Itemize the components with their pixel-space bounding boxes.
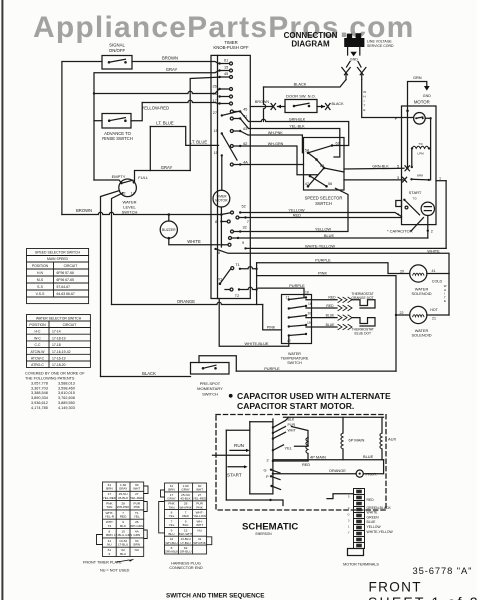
wire blue timer to capacitor 2 bbox=[238, 237, 428, 239]
black drop vertical with hop over door row bbox=[264, 87, 266, 122]
svg-text:MOTOR: MOTOR bbox=[215, 199, 228, 203]
patents notice bbox=[25, 372, 85, 410]
svg-text:POSITION: POSITION bbox=[32, 264, 49, 268]
svg-text:3,889,550: 3,889,550 bbox=[58, 401, 75, 405]
speed selector switch table bbox=[27, 249, 89, 304]
svg-text:61: 61 bbox=[224, 59, 228, 63]
svg-text:GR-BLU: GR-BLU bbox=[180, 550, 192, 554]
svg-text:YEL-R: YEL-R bbox=[105, 515, 115, 519]
wire yellow2 timer 32 to speed selector 56 bbox=[240, 188, 348, 231]
speed selector blades bbox=[308, 146, 332, 153]
timer contact 61 bbox=[218, 62, 220, 64]
buzzer bottom lead white wire bbox=[169, 238, 220, 245]
schematic switch contacts bbox=[272, 426, 274, 428]
wire yel to 4p coil bbox=[295, 438, 309, 447]
svg-text:LT. BLUE: LT. BLUE bbox=[156, 121, 174, 126]
svg-text:WH-BLU: WH-BLU bbox=[165, 541, 177, 545]
svg-text:16: 16 bbox=[308, 302, 312, 306]
motor gnd arrow bbox=[424, 86, 430, 91]
thermostat blue dot element bbox=[353, 318, 376, 326]
svg-text:17-18-19: 17-18-19 bbox=[52, 336, 66, 340]
label FRONT TIMER PLATE bbox=[83, 561, 122, 565]
svg-text:H: H bbox=[363, 95, 365, 99]
labels BLK PNK WHT bbox=[288, 418, 297, 433]
svg-text:54: 54 bbox=[305, 149, 309, 153]
timer contact 41 right bbox=[239, 117, 241, 119]
svg-text:6P MAIN: 6P MAIN bbox=[349, 438, 365, 443]
svg-text:RUN: RUN bbox=[234, 443, 244, 448]
svg-text:TEMPERATURE: TEMPERATURE bbox=[281, 356, 309, 360]
svg-text:26: 26 bbox=[213, 85, 217, 89]
svg-text:BROWN: BROWN bbox=[162, 56, 178, 61]
svg-text:YEL-BLK: YEL-BLK bbox=[289, 125, 305, 129]
wire blue1 bbox=[306, 317, 337, 319]
svg-text:AUX: AUX bbox=[388, 436, 397, 441]
svg-text:17-16-19: 17-16-19 bbox=[52, 357, 66, 361]
svg-text:4,174,785: 4,174,785 bbox=[31, 406, 48, 410]
wire orange bbox=[112, 302, 263, 304]
svg-text:SERVICE CORD: SERVICE CORD bbox=[367, 44, 394, 48]
svg-text:6F96 57-66: 6F96 57-66 bbox=[57, 271, 74, 275]
svg-text:17-18-20: 17-18-20 bbox=[52, 363, 66, 367]
svg-text:4,149,303: 4,149,303 bbox=[58, 406, 75, 410]
svg-text:HARNESS PLUG: HARNESS PLUG bbox=[171, 562, 201, 566]
label START with arrow bbox=[228, 466, 244, 468]
svg-text:22: 22 bbox=[400, 311, 404, 315]
door connector X left bbox=[271, 104, 276, 110]
svg-text:3,762,608: 3,762,608 bbox=[58, 396, 75, 400]
svg-text:WH-PNK: WH-PNK bbox=[268, 131, 283, 135]
svg-text:BLU: BLU bbox=[120, 552, 126, 556]
svg-text:ATCW-C: ATCW-C bbox=[31, 357, 45, 361]
svg-text:G: G bbox=[264, 467, 267, 472]
speed selector contact 62 bbox=[331, 144, 334, 147]
protector right lead bbox=[425, 118, 430, 180]
wire brown lower bus with hops bbox=[62, 212, 222, 214]
svg-text:WHITE-BLUE: WHITE-BLUE bbox=[245, 341, 269, 346]
svg-text:NU = NOT USED: NU = NOT USED bbox=[100, 568, 130, 572]
svg-text:T: T bbox=[363, 104, 365, 108]
yel contact bbox=[272, 449, 274, 451]
label SPEED SELECTOR SWITCH bbox=[305, 196, 343, 207]
svg-text:27: 27 bbox=[213, 111, 217, 115]
white right rail between solenoids bbox=[448, 274, 450, 316]
svg-text:BLUE: BLUE bbox=[326, 323, 336, 327]
svg-text:ADVANCE TO: ADVANCE TO bbox=[104, 131, 132, 136]
timer contact 15 mid with blade bbox=[221, 132, 223, 134]
svg-text:SWITCH: SWITCH bbox=[202, 392, 218, 397]
wire white-yellow timer to motor 1 bbox=[246, 247, 447, 249]
svg-text:NU: NU bbox=[135, 548, 139, 552]
buzzer top lead bbox=[168, 215, 170, 222]
svg-text:E: E bbox=[363, 108, 365, 112]
timer plate tabs bbox=[97, 486, 149, 545]
wire T2 out bbox=[239, 287, 257, 289]
svg-text:BLK: BLK bbox=[288, 418, 295, 422]
svg-text:T2: T2 bbox=[108, 524, 112, 528]
svg-text:FRONT TIMER PLATE: FRONT TIMER PLATE bbox=[83, 561, 122, 565]
timer motor label bbox=[215, 195, 228, 203]
water temperature switch box bbox=[282, 295, 312, 344]
svg-text:LT-BLU: LT-BLU bbox=[180, 541, 190, 545]
signal on/off switch box bbox=[102, 56, 132, 70]
svg-text:SWITCH: SWITCH bbox=[287, 361, 302, 365]
svg-text:62: 62 bbox=[243, 142, 247, 146]
svg-text:BLUE DOT: BLUE DOT bbox=[355, 331, 372, 335]
svg-text:RED: RED bbox=[328, 296, 336, 300]
strip feed wire bbox=[327, 494, 354, 499]
motor box bbox=[402, 106, 437, 225]
capacitor bottom lead terminal 2 bbox=[427, 216, 429, 239]
wire yel-blk from timer 41 bbox=[240, 119, 340, 158]
wire wh-pnk bbox=[240, 131, 303, 153]
wire to advance switch bbox=[94, 120, 102, 122]
right edge drop to prot bbox=[363, 460, 383, 474]
svg-text:START: START bbox=[409, 190, 422, 195]
advance to rinse switch box bbox=[102, 114, 131, 129]
svg-text:BROWN: BROWN bbox=[255, 100, 269, 104]
door right arrow bbox=[317, 106, 325, 108]
coil left feed vertical bbox=[407, 111, 409, 168]
timer contact 27 with blade bbox=[221, 114, 223, 116]
svg-text:NU: NU bbox=[107, 543, 111, 547]
svg-text:1: 1 bbox=[439, 176, 441, 180]
wire brown rail left bbox=[62, 62, 102, 215]
temp switch terminal labels bbox=[286, 291, 312, 343]
svg-text:RED: RED bbox=[182, 514, 189, 518]
svg-text:T'D: T'D bbox=[412, 197, 416, 201]
svg-text:C-C: C-C bbox=[34, 343, 41, 347]
svg-text:P: P bbox=[395, 116, 398, 121]
svg-text:GRAY: GRAY bbox=[166, 67, 178, 72]
svg-text:LINE VOLTAGE: LINE VOLTAGE bbox=[367, 39, 392, 43]
svg-text:WHITE-YELLOW: WHITE-YELLOW bbox=[305, 243, 335, 248]
svg-text:3,610,015: 3,610,015 bbox=[58, 391, 75, 395]
svg-text:BRN: BRN bbox=[134, 543, 141, 547]
wire gray bbox=[94, 71, 219, 180]
svg-text:YEL: YEL bbox=[285, 445, 293, 450]
svg-text:17-16-19-42: 17-16-19-42 bbox=[52, 350, 71, 354]
wire red2 bbox=[306, 307, 337, 309]
wire lt blue branch vertical bbox=[149, 127, 151, 171]
svg-text:LT-BLU-GRN: LT-BLU-GRN bbox=[114, 533, 132, 537]
motor capacitor circle bbox=[421, 202, 434, 215]
temp switch blade 5 bbox=[288, 334, 290, 336]
svg-text:TAN: TAN bbox=[169, 505, 175, 509]
wire 4A to speed selector bbox=[240, 164, 303, 166]
zigzag connector marks bbox=[338, 305, 352, 310]
temp switch blade 3 bbox=[288, 316, 290, 318]
timer inner vertical lower bbox=[220, 215, 222, 248]
signal switch contacts and blade bbox=[108, 61, 111, 64]
svg-text:ORANGE: ORANGE bbox=[177, 299, 195, 304]
svg-text:SWITCH: SWITCH bbox=[315, 201, 332, 206]
svg-text:Y: Y bbox=[348, 531, 350, 535]
svg-text:PROT.: PROT. bbox=[366, 472, 377, 477]
svg-text:17: 17 bbox=[286, 296, 290, 300]
svg-text:GRAY: GRAY bbox=[181, 488, 190, 492]
svg-text:BLACK: BLACK bbox=[294, 81, 307, 86]
svg-text:WH-PNK: WH-PNK bbox=[179, 505, 192, 509]
svg-text:RED: RED bbox=[120, 515, 127, 519]
svg-text:45-BLK: 45-BLK bbox=[180, 497, 191, 501]
capacitor note bullet bbox=[229, 394, 233, 398]
svg-text:BLK: BLK bbox=[183, 523, 190, 527]
svg-text:BLUE: BLUE bbox=[367, 520, 377, 524]
svg-text:BLU: BLU bbox=[168, 532, 174, 536]
wire purple T-contacts rail bbox=[256, 263, 258, 305]
label WATER LEVEL SWITCH bbox=[122, 199, 138, 214]
svg-text:PINK: PINK bbox=[318, 271, 327, 276]
svg-text:20: 20 bbox=[308, 312, 312, 316]
svg-text:SWITCH: SWITCH bbox=[122, 209, 138, 214]
door connector X right bbox=[326, 104, 331, 110]
speed selector contact 56 bbox=[325, 185, 328, 188]
svg-text:18: 18 bbox=[305, 291, 309, 295]
wire black from left chevron bbox=[264, 80, 347, 87]
svg-text:WH-GRN: WH-GRN bbox=[130, 524, 143, 528]
connector chevron right bbox=[358, 68, 364, 75]
timer contact 17 bbox=[218, 102, 220, 104]
svg-text:GRN-BLK: GRN-BLK bbox=[372, 164, 389, 168]
svg-text:MOTOR: MOTOR bbox=[414, 100, 430, 105]
svg-text:BLK-WHT: BLK-WHT bbox=[179, 532, 193, 536]
svg-text:GRAY: GRAY bbox=[167, 497, 176, 501]
svg-text:GRN: GRN bbox=[133, 533, 140, 537]
svg-text:7: 7 bbox=[247, 220, 249, 224]
timer box bbox=[211, 55, 250, 298]
svg-text:41: 41 bbox=[432, 269, 436, 273]
label HARNESS PLUG CONNECTOR END bbox=[169, 562, 203, 571]
timer contact 63 right bbox=[239, 130, 241, 132]
svg-text:BRN: BRN bbox=[168, 488, 175, 492]
wire from left terminal down long rail bbox=[101, 191, 120, 377]
speed selector switch box bbox=[304, 138, 345, 191]
wire to motor 3 bbox=[344, 179, 403, 181]
svg-text:SIGNAL: SIGNAL bbox=[109, 43, 125, 48]
run lead bbox=[213, 454, 250, 456]
svg-text:G: G bbox=[347, 513, 349, 517]
svg-text:3,057,778: 3,057,778 bbox=[31, 381, 48, 385]
svg-text:BLUE: BLUE bbox=[363, 454, 374, 459]
svg-text:6F96 67-65: 6F96 67-65 bbox=[57, 278, 74, 282]
wire grn-blk speed selector to motor 5 bbox=[344, 167, 404, 170]
svg-text:RED: RED bbox=[367, 498, 375, 502]
svg-text:YELLOW: YELLOW bbox=[367, 525, 382, 529]
svg-text:* CAPACITOR: * CAPACITOR bbox=[387, 228, 413, 233]
gnd arrows below plug bbox=[347, 47, 349, 55]
svg-text:E: E bbox=[444, 299, 446, 303]
motor terminal 1 out bbox=[436, 180, 446, 182]
svg-text:45: 45 bbox=[224, 72, 228, 76]
timer contact 4A right bbox=[239, 163, 241, 165]
svg-text:BLUE: BLUE bbox=[326, 314, 336, 318]
labels 12 14 terminals bbox=[122, 192, 135, 196]
svg-text:EMERSON: EMERSON bbox=[255, 532, 272, 536]
zigzag connector marks bbox=[338, 297, 352, 302]
svg-text:WHITE: WHITE bbox=[427, 248, 440, 253]
wire white timer 8 to solenoids bbox=[216, 249, 450, 274]
svg-text:WHITE-YELLOW: WHITE-YELLOW bbox=[367, 530, 394, 534]
svg-text:15: 15 bbox=[224, 66, 228, 70]
svg-text:YEL-RED: YEL-RED bbox=[193, 497, 207, 501]
svg-text:BRN: BRN bbox=[106, 533, 113, 537]
4p main coil bbox=[306, 438, 308, 454]
svg-text:ORANGE: ORANGE bbox=[329, 468, 346, 473]
svg-text:TAN: TAN bbox=[106, 505, 112, 509]
svg-text:V-S-S: V-S-S bbox=[36, 292, 46, 296]
timer motor bottom lead bbox=[220, 207, 222, 215]
strip pin numbers bbox=[347, 495, 350, 535]
svg-text:14: 14 bbox=[131, 192, 135, 196]
wire full to gray2 bbox=[135, 171, 191, 182]
svg-text:THE FOLLOWING PATENTS: THE FOLLOWING PATENTS bbox=[25, 376, 75, 380]
svg-text:20: 20 bbox=[400, 269, 404, 273]
svg-text:YEL-RED: YEL-RED bbox=[103, 496, 117, 500]
wire lt blue Z to timer bbox=[150, 127, 218, 146]
hot water solenoid bbox=[410, 306, 427, 323]
timer contact 45 bbox=[218, 76, 220, 78]
svg-text:17-18: 17-18 bbox=[52, 343, 61, 347]
svg-text:4A: 4A bbox=[243, 160, 248, 164]
wire gray2 vertical to timer bbox=[190, 77, 218, 170]
svg-text:SOLENOID: SOLENOID bbox=[411, 291, 431, 296]
wire wh-grn bbox=[240, 146, 317, 175]
svg-text:WHITE: WHITE bbox=[187, 239, 201, 244]
svg-text:21: 21 bbox=[432, 317, 436, 321]
cold water solenoid bbox=[410, 265, 427, 282]
svg-text:TIMER: TIMER bbox=[224, 40, 237, 45]
svg-text:GND: GND bbox=[423, 94, 431, 98]
svg-text:EMPTY: EMPTY bbox=[112, 174, 126, 179]
svg-text:P: P bbox=[266, 474, 269, 479]
speed selector contact 47 bbox=[307, 185, 310, 188]
speed selector contact 63 bbox=[323, 167, 326, 170]
timer contact blue out bbox=[237, 237, 239, 239]
wire to timer motor bbox=[221, 156, 223, 191]
timer contact 9 white in bbox=[220, 244, 222, 246]
advance switch contacts bbox=[108, 119, 111, 122]
svg-text:WHT: WHT bbox=[133, 487, 140, 491]
svg-text:4P MAIN: 4P MAIN bbox=[310, 455, 326, 460]
wire blue2 bbox=[306, 326, 337, 328]
aux coil bbox=[381, 417, 383, 433]
svg-text:3,367,703: 3,367,703 bbox=[31, 386, 48, 390]
harness plug tabs bbox=[159, 490, 212, 545]
svg-text:BUZZER: BUZZER bbox=[162, 228, 176, 232]
wire purple top to cold solenoid bbox=[257, 263, 410, 274]
svg-text:YEL: YEL bbox=[169, 523, 175, 527]
svg-text:BLACK: BLACK bbox=[142, 371, 156, 376]
timer motor circle bbox=[213, 190, 230, 207]
zigzag connector marks bbox=[338, 315, 352, 320]
svg-text:45-BLK: 45-BLK bbox=[118, 496, 129, 500]
red wire bbox=[273, 460, 308, 462]
label LINE VOLTAGE SERVICE CORD bbox=[367, 39, 394, 47]
svg-text:M-S: M-S bbox=[37, 278, 44, 282]
blue wire bbox=[273, 459, 384, 461]
svg-text:SCHEMATIC: SCHEMATIC bbox=[242, 522, 298, 533]
svg-text:COLD: COLD bbox=[432, 279, 443, 283]
timer contact 15 bbox=[218, 69, 220, 71]
svg-text:GRN-BLK: GRN-BLK bbox=[165, 550, 180, 554]
svg-text:PNK: PNK bbox=[134, 505, 141, 509]
svg-text:8: 8 bbox=[215, 220, 217, 224]
strip bottom step bbox=[348, 549, 364, 556]
door switch row wire bbox=[250, 106, 272, 108]
svg-text:LT-BLU: LT-BLU bbox=[118, 543, 128, 547]
svg-text:28: 28 bbox=[213, 92, 217, 96]
timer contact 26 bbox=[218, 88, 220, 90]
svg-text:SOLENOID: SOLENOID bbox=[411, 333, 431, 338]
svg-text:LT. BLUE: LT. BLUE bbox=[190, 139, 208, 144]
zigzag connector marks bbox=[338, 324, 352, 329]
harness plug connector grid bbox=[165, 483, 207, 554]
wire from gray rail to timer bbox=[94, 90, 219, 94]
label 2 and G and P contacts bbox=[264, 457, 270, 479]
svg-text:WHT: WHT bbox=[288, 429, 297, 433]
motor terminals strip bbox=[354, 489, 365, 549]
timer contact 8 pair bbox=[220, 220, 222, 222]
svg-text:RED: RED bbox=[326, 304, 334, 308]
svg-text:64-63 66-67: 64-63 66-67 bbox=[57, 292, 75, 296]
door left arrow bbox=[278, 106, 286, 108]
wire T1 out bbox=[240, 267, 257, 269]
svg-text:YELLOW-RED: YELLOW-RED bbox=[142, 105, 170, 110]
svg-text:KNOB-PUSH OFF: KNOB-PUSH OFF bbox=[213, 45, 249, 50]
label WATER TEMPERATURE SWITCH bbox=[281, 352, 309, 365]
svg-text:MOMENTARY: MOMENTARY bbox=[197, 386, 223, 391]
schematic contact column bbox=[272, 419, 274, 494]
svg-text:57-64-67: 57-64-67 bbox=[57, 285, 71, 289]
svg-text:I: I bbox=[364, 99, 365, 103]
svg-text:9: 9 bbox=[109, 552, 111, 556]
leads from gnd to connector chevrons bbox=[347, 62, 351, 68]
svg-text:ATRO-C: ATRO-C bbox=[31, 363, 44, 367]
timer label bbox=[213, 40, 249, 50]
wire grn top right bbox=[408, 82, 427, 111]
svg-text:H-N: H-N bbox=[37, 271, 44, 275]
svg-text:PURPLE: PURPLE bbox=[289, 283, 305, 288]
wire brown to timer bbox=[132, 62, 219, 64]
water selector switch table bbox=[27, 315, 91, 368]
svg-text:MOTOR TERMINALS: MOTOR TERMINALS bbox=[343, 562, 379, 566]
door switch box bbox=[285, 100, 317, 113]
pre-spot momentary switch box bbox=[191, 363, 230, 375]
svg-text:45: 45 bbox=[243, 107, 247, 111]
svg-text:CIRCUIT: CIRCUIT bbox=[64, 264, 78, 268]
svg-text:GRN-BLK: GRN-BLK bbox=[289, 118, 306, 122]
svg-text:19: 19 bbox=[307, 321, 311, 325]
svg-text:BLUE: BLUE bbox=[324, 233, 335, 238]
terminal wire labels bbox=[367, 498, 394, 534]
svg-text:NU: NU bbox=[197, 528, 201, 532]
svg-text:RED: RED bbox=[293, 213, 301, 218]
svg-text:START: START bbox=[227, 472, 242, 477]
svg-text:HOT: HOT bbox=[430, 308, 438, 312]
svg-text:T'D: T'D bbox=[418, 142, 422, 146]
svg-text:56: 56 bbox=[328, 182, 332, 186]
svg-text:62: 62 bbox=[336, 142, 340, 146]
label advance to rinse switch bbox=[102, 131, 132, 141]
timer inner column line bbox=[217, 55, 219, 298]
svg-text:PRE-SPOT: PRE-SPOT bbox=[200, 381, 221, 386]
speed selector contact 54 bbox=[307, 152, 310, 155]
label WHITE vertical letters bbox=[363, 90, 366, 112]
svg-text:CIRCUIT: CIRCUIT bbox=[63, 323, 77, 327]
svg-text:GRAY: GRAY bbox=[119, 487, 128, 491]
svg-text:SWITCH AND TIMER SEQUENCE: SWITCH AND TIMER SEQUENCE bbox=[166, 593, 264, 600]
